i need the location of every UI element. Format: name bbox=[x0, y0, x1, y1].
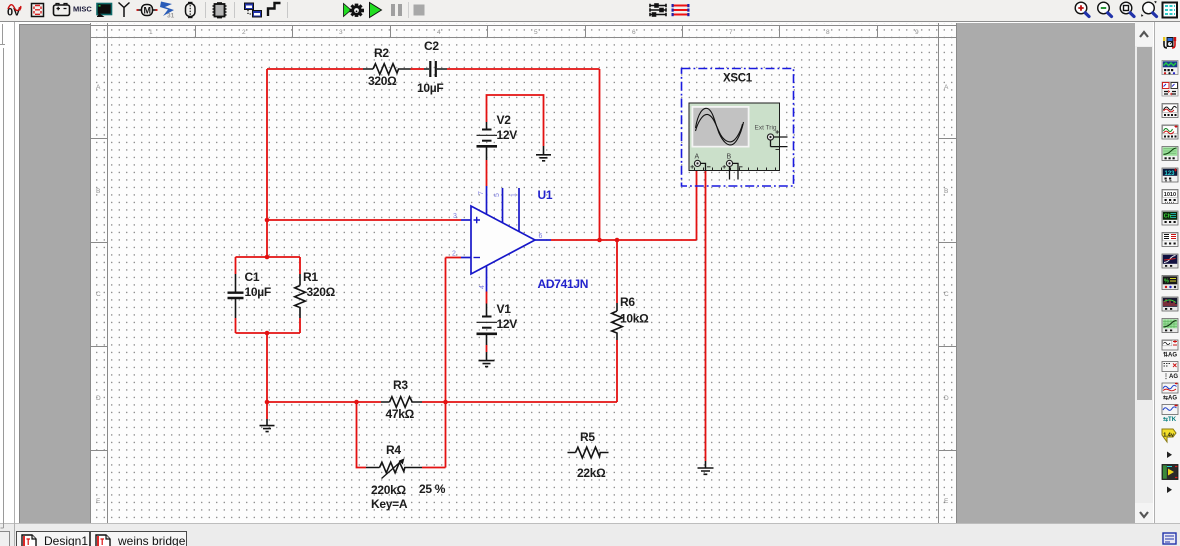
instrument logic analyzer bbox=[1162, 211, 1178, 225]
wire to op-amp pin3 bbox=[267, 219, 461, 221]
ground (V1) bbox=[479, 352, 495, 367]
icon peripherals monitor bbox=[97, 4, 112, 17]
svg-text:12V: 12V bbox=[497, 128, 518, 142]
wire C2 to right corner bbox=[447, 68, 600, 70]
svg-text:B: B bbox=[727, 154, 732, 161]
icon step bbox=[268, 3, 281, 16]
svg-text:AD741JN: AD741JN bbox=[538, 277, 589, 291]
separator bbox=[234, 2, 235, 18]
pin 2 lead bbox=[461, 257, 471, 259]
icon battery bbox=[54, 4, 70, 16]
instrument distortion analyzer bbox=[1162, 276, 1178, 290]
icon transducer bbox=[186, 2, 196, 18]
ext trig terminal bbox=[767, 134, 773, 140]
wire V2 bottom to pin7 bbox=[486, 160, 488, 186]
instrument multimeter bbox=[1163, 37, 1176, 48]
instrument function generator bbox=[1162, 61, 1178, 75]
wire R2 to C2 bbox=[411, 68, 425, 70]
left dock strip lines bbox=[0, 0, 20, 546]
svg-text:3: 3 bbox=[453, 213, 457, 220]
pin 3 lead bbox=[461, 219, 471, 221]
wire scope A- to ground bbox=[705, 170, 707, 461]
icon 7-segment indicator bbox=[32, 4, 44, 17]
node block bottom bbox=[265, 331, 270, 336]
plus mark bbox=[474, 217, 481, 224]
svg-text:9: 9 bbox=[915, 29, 919, 36]
svg-text:6: 6 bbox=[632, 29, 636, 36]
node output top wire bbox=[597, 238, 602, 243]
svg-text:R4: R4 bbox=[386, 443, 401, 457]
terminal A- stub bbox=[701, 163, 706, 170]
icon play bbox=[370, 3, 382, 18]
sheet border frame bbox=[91, 23, 957, 523]
svg-text:R6: R6 bbox=[620, 295, 635, 309]
wire R4 branch left bbox=[357, 402, 367, 468]
svg-text:4: 4 bbox=[437, 29, 441, 36]
blue refdes labels bbox=[538, 188, 589, 291]
wire top feedback R2 left bbox=[267, 68, 363, 70]
icon zoom out bbox=[1098, 2, 1112, 16]
svg-text:XSC1: XSC1 bbox=[723, 73, 753, 85]
ground (scope) bbox=[698, 461, 714, 474]
instrument agilent multimeter bbox=[1162, 362, 1178, 381]
wire V1 to ground bbox=[486, 345, 488, 352]
svg-text:2: 2 bbox=[452, 251, 456, 258]
pin 7 lead bbox=[486, 186, 488, 215]
svg-text:E: E bbox=[944, 498, 949, 505]
ruler letters/numbers bbox=[96, 29, 949, 505]
pin 4 lead bbox=[486, 266, 488, 292]
svg-text:8: 8 bbox=[826, 29, 830, 36]
svg-text:R1: R1 bbox=[303, 270, 318, 284]
instrument agilent function generator bbox=[1162, 340, 1178, 359]
svg-text:C: C bbox=[96, 291, 101, 298]
tab Design1 bbox=[16, 531, 90, 546]
svg-text:V2: V2 bbox=[497, 113, 512, 127]
icon wire colors bbox=[672, 4, 690, 16]
tab weins bridge bbox=[90, 531, 187, 546]
potentiometer R4 arrowhead bbox=[399, 458, 405, 464]
node ground branch bbox=[265, 400, 270, 405]
instrument 4ch oscilloscope bbox=[1162, 125, 1178, 139]
svg-text:Ext Trig: Ext Trig bbox=[755, 125, 777, 132]
instrument network analyzer bbox=[1162, 319, 1178, 333]
svg-text:320Ω: 320Ω bbox=[368, 74, 397, 88]
measurement probe 1.4v bbox=[1162, 429, 1176, 442]
svg-text:B: B bbox=[944, 188, 948, 195]
svg-text:A: A bbox=[96, 84, 101, 91]
oscilloscope XSC1 dashed selection box bbox=[682, 69, 794, 187]
separator bbox=[287, 2, 288, 18]
svg-text:320Ω: 320Ω bbox=[307, 285, 336, 299]
terminal B marks bbox=[723, 165, 727, 169]
svg-text:D: D bbox=[96, 395, 101, 402]
svg-text:47kΩ: 47kΩ bbox=[386, 407, 415, 421]
instrument word generator bbox=[1162, 190, 1178, 204]
terminal B bbox=[726, 160, 732, 166]
node R4 left bbox=[354, 400, 359, 405]
instrument oscilloscope bbox=[1162, 104, 1178, 118]
svg-text:7: 7 bbox=[478, 191, 485, 195]
pin 1 lead bbox=[518, 188, 520, 232]
svg-text:6: 6 bbox=[539, 233, 543, 240]
svg-text:Key=A: Key=A bbox=[371, 497, 408, 511]
wire bottom horizontal right of R3 bbox=[422, 401, 617, 403]
instrument IV analyzer bbox=[1162, 254, 1178, 268]
svg-text:12V: 12V bbox=[497, 317, 518, 331]
svg-text:10kΩ: 10kΩ bbox=[620, 312, 649, 326]
junction dots bbox=[265, 218, 620, 405]
terminal A bbox=[694, 160, 700, 166]
capacitor C2 bbox=[424, 68, 447, 70]
wire node to C1R1 block bbox=[266, 220, 268, 257]
ground (V2 right) bbox=[536, 146, 551, 161]
wire V2 top loop bbox=[487, 95, 544, 146]
svg-text:R5: R5 bbox=[580, 430, 595, 444]
instrument wattmeter bbox=[1162, 82, 1178, 96]
wire red net bbox=[236, 69, 706, 468]
pin 5 lead bbox=[502, 188, 504, 223]
svg-text:V1: V1 bbox=[497, 302, 512, 316]
icon sliders bbox=[650, 4, 667, 16]
instrument tektronix oscilloscope bbox=[1162, 404, 1178, 423]
instrument logic converter bbox=[1162, 233, 1178, 247]
scope screen bbox=[692, 106, 750, 148]
dropdown arrow bbox=[1167, 452, 1172, 459]
svg-text:R2: R2 bbox=[374, 46, 389, 60]
svg-text:220kΩ: 220kΩ bbox=[371, 483, 406, 497]
icon zoom in bbox=[1075, 2, 1089, 16]
instrument bode plotter bbox=[1162, 147, 1178, 161]
battery V2 bbox=[486, 122, 488, 129]
icon place chip bbox=[213, 2, 227, 18]
ground (left bottom) bbox=[260, 419, 275, 432]
svg-text:E: E bbox=[96, 498, 101, 505]
terminal B stubs bbox=[730, 163, 739, 179]
svg-text:C2: C2 bbox=[424, 39, 439, 53]
oscilloscope body bbox=[689, 103, 788, 180]
svg-text:10µF: 10µF bbox=[245, 285, 271, 299]
icon NI logo bbox=[160, 2, 175, 20]
node R6 branch bbox=[615, 238, 620, 243]
wire bottom horizontal left of R3 bbox=[267, 401, 381, 403]
icon source 0V bbox=[7, 5, 22, 19]
wire right vertical to output bbox=[599, 69, 601, 240]
resistor R2 bbox=[363, 64, 411, 75]
battery V1 bbox=[486, 304, 488, 317]
svg-text:C: C bbox=[944, 291, 949, 298]
icon report view bbox=[1163, 3, 1178, 18]
black component strokes bbox=[228, 61, 714, 479]
svg-text:4: 4 bbox=[479, 285, 486, 289]
bottom-right mini icon bbox=[1162, 532, 1178, 545]
svg-text:5: 5 bbox=[534, 29, 538, 36]
wire block bottom to ground node bbox=[266, 333, 268, 419]
wire R4 branch right up to pin2 bbox=[422, 258, 446, 468]
resistor R3 bbox=[381, 397, 422, 408]
wire R6 bottom bbox=[616, 340, 618, 402]
svg-text:B: B bbox=[96, 188, 100, 195]
instrument frequency counter bbox=[1162, 168, 1178, 182]
resistor R1 bbox=[295, 274, 306, 318]
wire R6 top bbox=[616, 240, 618, 303]
svg-text:D: D bbox=[944, 395, 949, 402]
icon stop bbox=[414, 5, 425, 16]
wire pin4 to V1 bbox=[486, 292, 488, 304]
svg-text:10µF: 10µF bbox=[417, 81, 443, 95]
svg-text:1: 1 bbox=[149, 29, 153, 36]
node R4 right bbox=[443, 400, 448, 405]
svg-text:A: A bbox=[944, 84, 949, 91]
wire scope A+ bbox=[696, 166, 698, 240]
terminal A marks bbox=[691, 165, 695, 169]
resistor R5 bbox=[568, 447, 609, 458]
pin 6 lead bbox=[535, 239, 551, 241]
wire C1R1 block frame bbox=[236, 257, 301, 333]
instrument agilent oscilloscope bbox=[1162, 383, 1178, 402]
scope bottom ticks bbox=[695, 168, 776, 171]
svg-text:2: 2 bbox=[242, 29, 246, 36]
icon hierarchy bbox=[245, 3, 262, 17]
potentiometer R4 bbox=[366, 462, 422, 473]
wire left vertical feedback bbox=[266, 69, 268, 220]
icon RF antenna bbox=[119, 3, 130, 18]
LabVIEW instrument bbox=[1162, 465, 1178, 480]
svg-text:R3: R3 bbox=[393, 378, 408, 392]
separator bbox=[408, 2, 409, 18]
instrument spectrum analyzer bbox=[1162, 297, 1178, 311]
scope waveform bbox=[696, 108, 744, 145]
wire op-amp output bbox=[551, 239, 697, 241]
icon pause bbox=[391, 4, 402, 16]
svg-text:5: 5 bbox=[494, 193, 501, 197]
icon run with gear bbox=[344, 4, 365, 17]
icon electromechanical motor bbox=[137, 5, 158, 16]
svg-text:25 %: 25 % bbox=[419, 482, 446, 496]
svg-text:U1: U1 bbox=[538, 188, 553, 202]
icon zoom fit bbox=[1141, 1, 1157, 17]
minus mark bbox=[474, 257, 481, 259]
op-amp pin numbers bbox=[452, 191, 543, 289]
svg-text:1: 1 bbox=[511, 193, 518, 197]
svg-text:22kΩ: 22kΩ bbox=[577, 466, 606, 480]
op-amp U1 bbox=[461, 186, 551, 292]
svg-text:7: 7 bbox=[729, 29, 733, 36]
separator bbox=[205, 2, 206, 18]
dropdown arrow 2 bbox=[1167, 487, 1172, 494]
icon zoom area bbox=[1120, 2, 1134, 16]
wire to op-amp pin2 bbox=[446, 257, 462, 259]
node block top bbox=[265, 255, 270, 260]
svg-text:3: 3 bbox=[339, 29, 343, 36]
node pin3 junction bbox=[265, 218, 270, 223]
resistor R6 bbox=[612, 303, 623, 340]
svg-text:C1: C1 bbox=[245, 270, 260, 284]
capacitor C1 bbox=[235, 274, 237, 318]
svg-text:A: A bbox=[695, 154, 700, 161]
bottom-left hscroll stub bbox=[0, 531, 10, 546]
